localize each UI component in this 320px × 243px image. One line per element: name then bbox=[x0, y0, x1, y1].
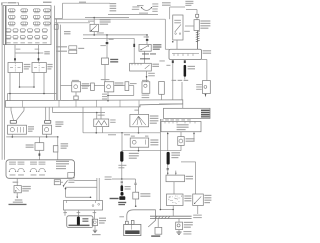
wire blob W2 feed bbox=[121, 133, 123, 151]
label module M1 b bbox=[26, 147, 34, 148]
label D3 bbox=[130, 83, 137, 84]
wire blower left leg bbox=[172, 63, 174, 100]
label 4 GRN bbox=[88, 21, 94, 22]
wire bus V3 bbox=[57, 23, 59, 101]
fuse block heavy left bar bbox=[5, 6, 7, 44]
label arc top bbox=[137, 5, 144, 6]
wire left bus A bbox=[1, 3, 3, 160]
label U4 b bbox=[196, 86, 202, 87]
bulkhead divider bbox=[96, 100, 98, 107]
wire lamp feed R bbox=[181, 161, 196, 163]
wire bus H17 bbox=[85, 17, 129, 19]
label U4 a bbox=[196, 84, 202, 85]
junction bbox=[19, 86, 21, 88]
heavy wire blob W3 bbox=[121, 185, 124, 191]
connector hash A bbox=[172, 60, 174, 63]
label M2 c bbox=[150, 144, 158, 145]
wire to starter relay bbox=[135, 179, 137, 183]
label S2 out c bbox=[140, 58, 150, 59]
label arc right a bbox=[152, 3, 158, 4]
label cable b bbox=[193, 217, 202, 218]
label relay K1 line1 bbox=[24, 64, 31, 65]
cluster pin bbox=[168, 122, 170, 124]
label S4 a bbox=[150, 115, 159, 116]
junction bbox=[106, 34, 108, 36]
label W2 c bbox=[129, 158, 137, 159]
wire to solenoid bbox=[157, 219, 159, 228]
label H133 a bbox=[108, 134, 116, 135]
label U6 b bbox=[184, 224, 193, 225]
label X1 b bbox=[22, 188, 31, 189]
label W2 a bbox=[129, 153, 139, 154]
arrow U2 bbox=[107, 100, 109, 102]
label blower b bbox=[203, 53, 212, 54]
junction bbox=[12, 136, 14, 138]
fuse F20 bbox=[13, 36, 18, 39]
label U5 b bbox=[186, 141, 195, 142]
label gnd b bbox=[105, 179, 112, 180]
relay K3 pin bbox=[134, 63, 136, 65]
label S2 out a bbox=[142, 53, 149, 54]
label pc pin bbox=[170, 119, 174, 120]
connector U1 out bbox=[74, 96, 78, 100]
wire H1 down bbox=[94, 226, 96, 230]
blower pin bbox=[182, 54, 184, 57]
hatch mark bbox=[196, 34, 200, 35]
label GA a bbox=[184, 195, 191, 196]
clutch coil U2 bbox=[105, 82, 114, 92]
wire U1 to D2 bbox=[81, 85, 91, 87]
wire run to blower bbox=[165, 48, 169, 50]
label G2 a bbox=[183, 231, 191, 232]
wire lamp diag 2 bbox=[17, 111, 25, 121]
hatch mark bbox=[196, 32, 200, 33]
bracket HOT AT ALL TIMES bbox=[2, 3, 19, 5]
module M1 bbox=[35, 143, 44, 151]
label S4 feed bbox=[134, 110, 139, 111]
label W3 a bbox=[125, 186, 131, 187]
label PC d bbox=[201, 116, 210, 117]
junction bbox=[121, 178, 123, 180]
label W4 a bbox=[171, 152, 180, 153]
label arc right d bbox=[152, 11, 157, 12]
wire bus V1 bbox=[54, 6, 56, 101]
label assembly c bbox=[56, 166, 66, 167]
diode D3 bbox=[125, 82, 129, 91]
connector tick lamp2 bbox=[45, 121, 51, 124]
hatch mark bbox=[196, 40, 200, 41]
fuse F1 bbox=[8, 9, 15, 12]
fuse F11 bbox=[33, 22, 40, 25]
wire HP out bbox=[61, 181, 64, 183]
label pc pin bbox=[165, 119, 169, 120]
wire relay K2 leg a bbox=[33, 73, 35, 88]
wire drop D1 bbox=[106, 35, 108, 42]
splice arc 3 bbox=[30, 168, 36, 171]
junction bbox=[107, 95, 109, 97]
label U1 c bbox=[82, 88, 88, 89]
label M2 t2 bbox=[145, 136, 148, 137]
label S5 b bbox=[204, 197, 211, 198]
wire U1 down bbox=[75, 92, 77, 96]
label K3 a bbox=[152, 64, 159, 65]
label J1 b bbox=[140, 196, 150, 197]
junction bbox=[175, 173, 176, 174]
label H1 c bbox=[99, 222, 105, 223]
label blower a bbox=[203, 50, 212, 51]
horn relay S2 bbox=[139, 44, 151, 51]
relay K1 bbox=[8, 63, 23, 73]
wire ST feed bbox=[135, 185, 137, 192]
wire ign drop bbox=[169, 7, 171, 19]
wire to lamp U6 bbox=[178, 219, 180, 223]
bulkhead divider bbox=[58, 100, 60, 107]
wire horn bus bbox=[66, 196, 91, 198]
wire fuse feed bbox=[175, 171, 177, 176]
junction bbox=[57, 136, 59, 138]
blower motor M2 bbox=[130, 138, 149, 147]
battery cable positive bbox=[127, 210, 156, 227]
junction bbox=[138, 132, 140, 134]
wire lamp feed 2 bbox=[23, 107, 25, 110]
splice arc 4 bbox=[39, 168, 45, 171]
relay K3 pin bbox=[140, 63, 142, 65]
label CX b bbox=[61, 145, 69, 146]
label W5 a bbox=[82, 218, 88, 219]
cable hatch bbox=[168, 216, 170, 218]
label feed a bbox=[16, 49, 21, 50]
wire blower right leg bbox=[181, 82, 183, 100]
label W1 a bbox=[188, 66, 195, 67]
cable run bottom bbox=[150, 218, 192, 220]
wire U1 to bulkhead bbox=[75, 99, 77, 102]
wire right bus long bbox=[159, 119, 161, 210]
label mid stack 2 bbox=[110, 5, 117, 6]
arrow X1 bbox=[16, 197, 18, 199]
fuse label bbox=[13, 42, 17, 43]
fuse F3 bbox=[33, 9, 40, 12]
junction J1 bbox=[133, 192, 139, 199]
component Y1 bbox=[69, 46, 77, 49]
junction bbox=[172, 41, 174, 43]
label arc right b bbox=[152, 6, 158, 7]
cluster pin bbox=[189, 122, 191, 124]
fuse label bbox=[6, 42, 10, 43]
label wire gauge bbox=[44, 53, 50, 54]
wire FL to blower bbox=[197, 31, 199, 50]
label pc pin bbox=[181, 119, 185, 120]
instrument cluster box bbox=[161, 122, 201, 132]
fuse label bbox=[28, 42, 32, 43]
bulkhead divider bbox=[119, 100, 121, 107]
label G1 b bbox=[118, 202, 126, 203]
label G1 a bbox=[110, 198, 119, 199]
label mid stack 4 bbox=[110, 10, 117, 11]
label horn feed b bbox=[64, 33, 71, 34]
blower module bbox=[169, 49, 202, 59]
label lamp L1 c bbox=[28, 131, 33, 132]
label FL b bbox=[200, 23, 210, 24]
lamp L1 bbox=[8, 125, 27, 134]
label S4 d bbox=[150, 123, 157, 124]
wire fuse to relay K2 bbox=[38, 45, 40, 63]
label H112 bbox=[98, 115, 105, 116]
fuse F13 bbox=[6, 29, 11, 32]
wire bus H112 bbox=[53, 112, 106, 114]
label S5 c bbox=[204, 200, 211, 201]
wire strip to R1 bbox=[100, 107, 102, 119]
junction bbox=[43, 93, 45, 95]
wire run feed bbox=[164, 19, 166, 49]
label X1 c bbox=[22, 190, 29, 191]
label U3 top bbox=[142, 80, 149, 81]
wire link V1-V5 bbox=[55, 18, 63, 20]
junction bbox=[167, 133, 169, 135]
ground G3 bbox=[93, 230, 97, 232]
label leg row bbox=[178, 80, 183, 81]
wire S6 stub bbox=[63, 186, 65, 187]
hatch mark bbox=[196, 36, 200, 37]
label bat cable bbox=[119, 216, 124, 217]
wire U2 to D3 bbox=[114, 85, 125, 87]
label lamp L1 a bbox=[28, 126, 34, 127]
inner connector box bbox=[68, 173, 74, 179]
label H1 a bbox=[99, 218, 106, 219]
connector CZ bbox=[102, 58, 109, 65]
label U1 b bbox=[82, 85, 89, 86]
wire lamp ground bus bbox=[6, 136, 57, 138]
junction bbox=[95, 132, 97, 134]
label arc left a bbox=[132, 6, 139, 7]
cable hatch bbox=[161, 216, 163, 218]
label leg row bbox=[184, 80, 189, 81]
wire cluster leg b bbox=[193, 134, 195, 142]
wire col down 0 bbox=[64, 210, 66, 216]
wire to sender U5 bbox=[180, 132, 182, 137]
label PC b bbox=[201, 112, 210, 114]
label U6 c bbox=[184, 227, 191, 228]
label X1 caption bbox=[9, 204, 27, 205]
label leg row bbox=[172, 80, 177, 81]
wire strip right end bbox=[159, 103, 183, 105]
ground G2 bbox=[176, 232, 181, 234]
wire cluster leg a bbox=[167, 132, 169, 151]
wire S4 down bbox=[138, 127, 140, 133]
wire left bus B bbox=[4, 45, 6, 160]
label CZ b bbox=[110, 61, 118, 62]
wire dimmer feed bbox=[57, 137, 59, 146]
label H133 b bbox=[124, 134, 130, 135]
fuse F14 bbox=[13, 29, 18, 32]
fuse block bbox=[3, 6, 51, 45]
label assembly b bbox=[56, 163, 69, 164]
label FL d bbox=[200, 28, 208, 29]
cable hatch bbox=[165, 216, 167, 218]
label below blower M bbox=[166, 65, 170, 66]
splice arc C100 bbox=[142, 8, 152, 11]
wire PNK feed bbox=[15, 52, 43, 54]
label Y1 bbox=[56, 46, 67, 47]
wire lamp feed 4 bbox=[48, 107, 50, 120]
wire K3 down bbox=[146, 71, 148, 82]
junction bbox=[9, 93, 11, 95]
label S1 c bbox=[100, 24, 109, 25]
wire to component X1 bbox=[16, 178, 18, 185]
hatch mark bbox=[196, 38, 200, 39]
ground block G1 bbox=[119, 196, 125, 200]
label bat a bbox=[118, 204, 125, 205]
label HOT AT ALL TIMES bbox=[8, 2, 17, 3]
label K3 out b bbox=[148, 75, 155, 76]
wire strip elbow bbox=[182, 104, 184, 108]
label lamp L2 b bbox=[55, 124, 63, 125]
wire FL down bbox=[196, 17, 198, 19]
wire S2 feed bbox=[146, 41, 148, 45]
label CZ a bbox=[110, 59, 118, 60]
label lamp L2 a bbox=[55, 121, 63, 122]
label col b bbox=[77, 212, 81, 213]
label A7 a bbox=[102, 94, 107, 95]
wire S1 down bbox=[93, 32, 95, 35]
label ign b bbox=[162, 5, 171, 6]
wire CZ down bbox=[104, 65, 106, 82]
label 5 BLK bbox=[13, 182, 19, 183]
battery terminal 2 bbox=[131, 221, 134, 225]
label mid stack 1 bbox=[110, 3, 117, 4]
label D1 left bbox=[100, 45, 106, 46]
label arc left b bbox=[132, 9, 139, 10]
label U1 a bbox=[82, 83, 89, 84]
connector CX bbox=[53, 146, 58, 152]
wire cluster leg b stub bbox=[193, 132, 195, 134]
junction bbox=[172, 209, 174, 211]
fuse FL bbox=[196, 14, 199, 17]
label Y2 bbox=[56, 51, 67, 52]
wire bus V4 bbox=[60, 25, 62, 101]
junction bbox=[146, 76, 148, 78]
heavy wire blob W3b bbox=[121, 192, 124, 196]
connector CY bbox=[54, 25, 58, 30]
wire to module M1 bbox=[38, 137, 40, 143]
wire D2 to U2 bbox=[94, 85, 104, 87]
wire W2 down bbox=[121, 162, 123, 179]
junction bbox=[46, 136, 48, 138]
clutch coil U3 bbox=[142, 82, 150, 94]
label mid stack 3 bbox=[110, 8, 117, 9]
switch S5 bbox=[193, 194, 204, 206]
wire dimmer feed 2 bbox=[57, 152, 59, 160]
wire X1 down bbox=[16, 193, 18, 197]
fuse F4 bbox=[44, 9, 51, 12]
component X1 bbox=[14, 186, 21, 193]
label cluster b bbox=[177, 127, 189, 128]
fuse F10 bbox=[21, 22, 28, 25]
label X1 ground b bbox=[13, 202, 23, 203]
label SOL bbox=[151, 235, 160, 236]
horn pad HP bbox=[54, 180, 60, 185]
label col a bbox=[63, 212, 67, 213]
wire W1 down bbox=[184, 77, 186, 80]
label FL c bbox=[200, 25, 210, 26]
label module M1 a bbox=[26, 144, 34, 145]
label 4 BLK bbox=[184, 31, 190, 32]
column connector box bbox=[64, 201, 103, 211]
wire into U1 bbox=[61, 85, 72, 87]
connector tick M1 bbox=[39, 153, 41, 155]
fusible link box bbox=[194, 20, 199, 31]
ignition switch S3 bbox=[173, 15, 183, 40]
label G2 b bbox=[183, 233, 191, 234]
wire GA down bbox=[172, 206, 174, 210]
connector tick D1 bbox=[106, 42, 109, 44]
heavy wire blob W4 bbox=[167, 152, 170, 165]
blower pin bbox=[187, 54, 189, 57]
label top bus bbox=[79, 2, 86, 3]
wire to switch S1 bbox=[93, 18, 95, 25]
label U6 a bbox=[184, 222, 193, 223]
connector tick lamp1 bbox=[10, 121, 16, 124]
label X1 a bbox=[22, 186, 31, 187]
fuse label bbox=[21, 42, 25, 43]
wire S2 down bbox=[143, 51, 145, 63]
printed circuit box bbox=[164, 108, 211, 118]
connector tick S2 bbox=[146, 39, 148, 41]
wire to bulkhead bbox=[7, 94, 9, 101]
wire ground link bus bbox=[8, 93, 57, 95]
solenoid SOL bbox=[155, 227, 162, 234]
wire lamp feed 1 bbox=[10, 107, 12, 110]
label col c bbox=[93, 212, 97, 213]
label relay K2 line2 bbox=[47, 66, 52, 67]
connector tick ST bbox=[134, 183, 136, 184]
wire bus H22 bbox=[55, 22, 91, 24]
wire relay link bbox=[20, 86, 35, 88]
heavy wire blob W5 bbox=[77, 217, 80, 226]
label R1 b bbox=[110, 122, 115, 123]
connector tick C2 bbox=[38, 58, 40, 60]
label assembly a bbox=[56, 161, 69, 162]
bulkhead divider bbox=[75, 100, 77, 107]
bulkhead divider bbox=[138, 100, 140, 107]
label horn feed a bbox=[64, 31, 71, 32]
battery terminal 1 bbox=[126, 221, 129, 224]
wire right border drop bbox=[206, 60, 208, 81]
label relay K2 line3 bbox=[47, 68, 51, 69]
label U1 top bbox=[72, 80, 79, 81]
fuse F9 bbox=[8, 22, 15, 25]
connector assembly box bbox=[6, 160, 75, 179]
wire bus H14 bbox=[108, 14, 158, 16]
wire ign top bbox=[170, 6, 185, 8]
wire R1 leg b bbox=[102, 127, 104, 133]
label S5 a bbox=[204, 195, 211, 196]
splice arc 1 bbox=[9, 168, 15, 171]
label arc below bbox=[139, 13, 148, 14]
label GA c bbox=[184, 200, 191, 201]
label U3 below b bbox=[142, 97, 150, 98]
connector ticks W4 bbox=[167, 168, 170, 169]
component Y2 bbox=[69, 50, 77, 53]
wire to relay K3 left bbox=[133, 38, 135, 63]
label relay K1 line2 bbox=[24, 66, 31, 67]
battery BAT bbox=[124, 224, 141, 235]
wire S3 down bbox=[176, 40, 178, 49]
label W1 b bbox=[188, 68, 195, 69]
bulkhead divider bbox=[22, 100, 24, 107]
wire R1 leg a bbox=[95, 127, 97, 133]
label U2 a bbox=[115, 82, 124, 83]
label FUSE BLOCK bbox=[43, 2, 52, 3]
